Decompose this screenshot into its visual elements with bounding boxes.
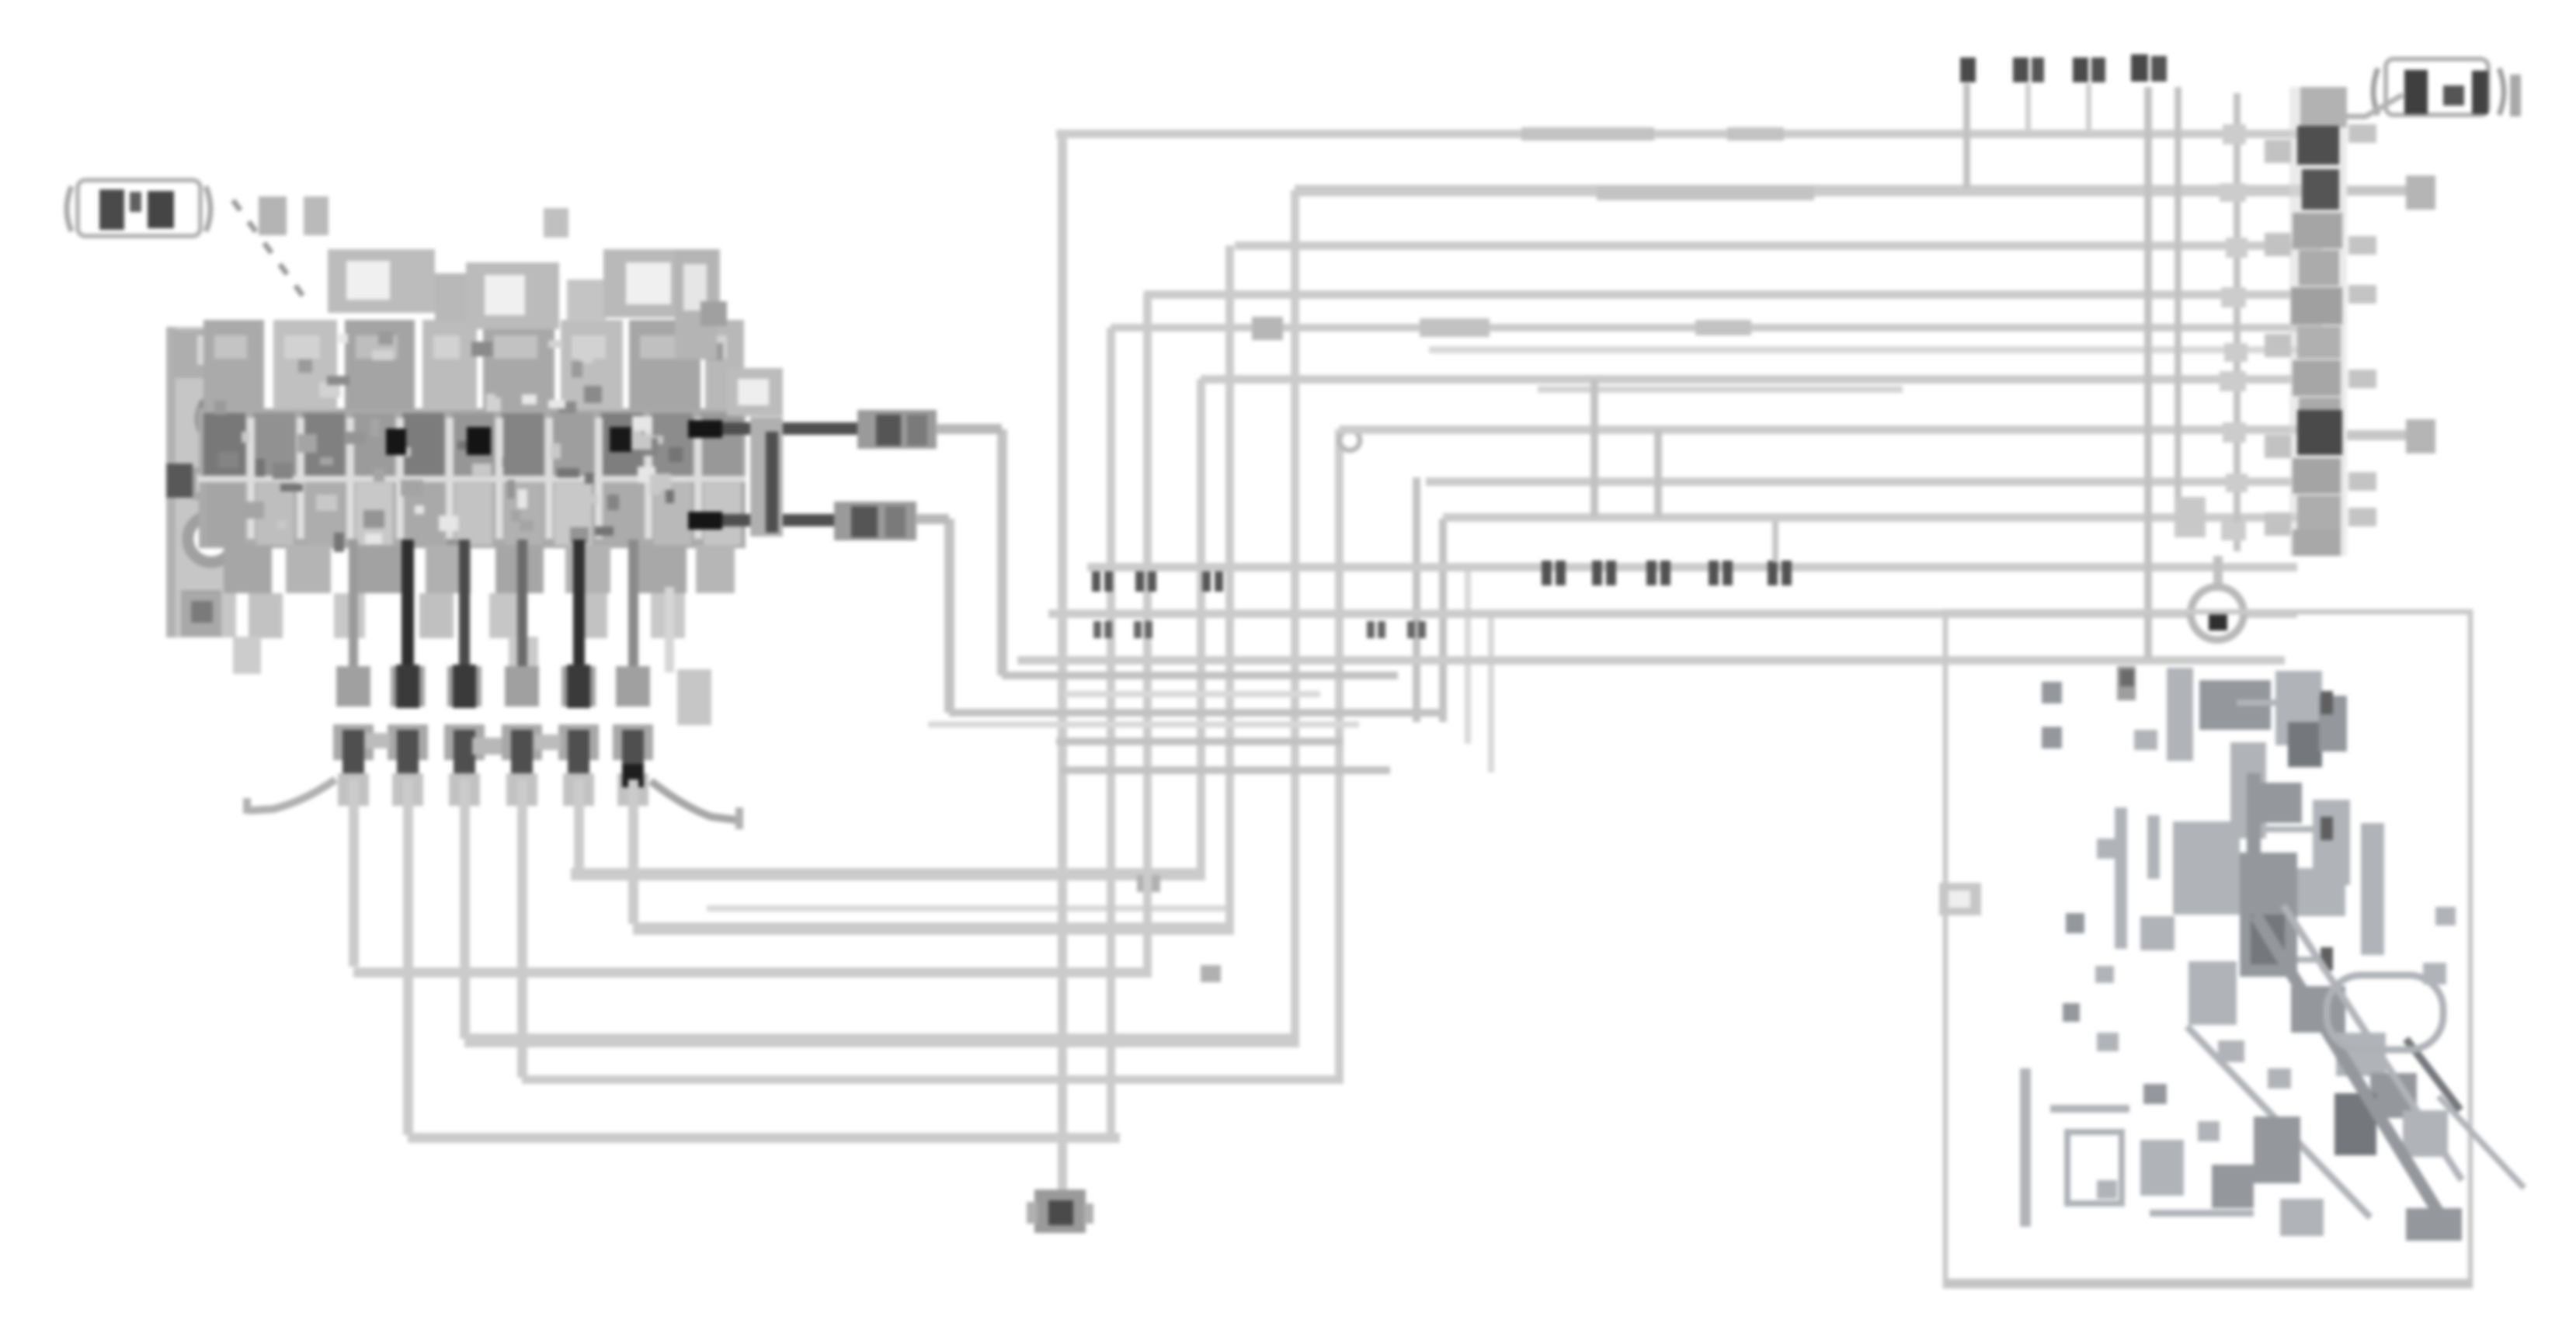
clamp 2 on L5 — [1252, 317, 1283, 340]
section vertical V4 — [2234, 93, 2241, 551]
bundle riser 4 — [1488, 613, 1494, 773]
hose 4 upper run — [517, 540, 527, 683]
line end nubs right of bank — [2348, 124, 2376, 143]
control valve: left end plate — [166, 327, 236, 637]
joint ball on L7 start — [1340, 430, 1360, 450]
hose 2 upper run — [402, 540, 414, 683]
valve body lower lugs — [224, 545, 272, 593]
label tail — [2510, 75, 2521, 116]
bank outlet stub upper — [2347, 186, 2407, 196]
hose 6 dark nut — [622, 764, 644, 787]
remote valve bank column — [2289, 87, 2347, 556]
bank fitting 7 — [2297, 326, 2341, 359]
bank fitting 13 — [2293, 530, 2341, 556]
riser A: return line from L1 down to drain fitting — [1058, 134, 1067, 1193]
hose A fitting — [857, 410, 937, 449]
pipe L9 (y666) — [1443, 513, 2319, 522]
label: right callout — [2373, 68, 2378, 115]
end plate lower boss — [181, 590, 221, 637]
number leader verticals — [1963, 84, 1970, 189]
inset counterweight blob — [2327, 975, 2443, 1050]
hose A stub to elbow — [936, 424, 1002, 434]
bank fitting 10 — [2297, 410, 2342, 455]
bundle riser 3 — [1465, 567, 1471, 744]
end plate dark boss — [166, 464, 193, 498]
inset port d — [2063, 1003, 2080, 1022]
inset upper cluster — [2167, 668, 2193, 761]
control valve: main body band — [199, 408, 746, 548]
pipe L2 (y245) — [1295, 185, 2322, 196]
bank side bumps — [2265, 140, 2291, 163]
pipe H1b: light parallel — [707, 905, 1233, 912]
bank fitting 4 — [2293, 213, 2342, 248]
control valve: upper sections — [203, 320, 264, 410]
inset left connector — [1939, 883, 1981, 915]
port boss upper — [200, 395, 247, 442]
hose adapters / fittings row — [336, 666, 370, 707]
step verticals near right — [1590, 379, 1598, 517]
inset boom diagonal — [2255, 915, 2451, 1233]
hose 1 upper run — [349, 540, 358, 683]
pipe L10 (y730) — [1087, 563, 2297, 571]
hose 3 upper run — [459, 540, 470, 683]
bank fitting 12 — [2297, 495, 2341, 530]
bank lower-left lug — [2174, 497, 2206, 537]
pipe L8 (y620) — [1426, 477, 2319, 486]
inset stub line 1 — [2237, 700, 2319, 706]
control valve: right end cap — [675, 249, 717, 359]
balloon numbers row mid-left — [1092, 571, 1100, 592]
pipe H2: hose6 elbow run right — [633, 922, 1234, 935]
pipe H6: hose2 elbow run right — [408, 1133, 1120, 1143]
whisker hose right — [651, 781, 736, 820]
port boss lower — [188, 516, 235, 562]
pipe joint on L2 — [1597, 186, 1814, 200]
section vertical V2 — [2174, 87, 2181, 517]
bank fitting 5 — [2299, 250, 2339, 286]
bundle line 6 — [1060, 766, 1390, 774]
label: left callout (valve bank P/N) — [67, 186, 71, 231]
tick below L9 — [1772, 522, 1778, 562]
riser G: H5 up to L7 — [1335, 429, 1344, 1079]
balloon below L12 — [2117, 666, 2136, 700]
drain to swivel circle — [2213, 556, 2223, 584]
machine overview inset frame — [1945, 612, 2470, 1286]
pipe L6 (y488) — [1201, 375, 2322, 384]
pipe L3 (y316) — [1235, 241, 2322, 250]
bank fitting 8 — [2293, 360, 2341, 396]
pipe L6b double — [1538, 386, 1903, 393]
pipe L5 (y422) — [1111, 324, 2322, 332]
pilot line from lower hose elbow — [944, 519, 954, 713]
bank fitting 1 — [2300, 87, 2347, 127]
tie rod nuts (black) — [386, 429, 406, 455]
pipe L4 (y379) — [1144, 290, 2322, 299]
inset mid cluster — [2173, 821, 2240, 915]
bundle line 5 — [1056, 738, 1344, 745]
leader: dashed line from left label to control valve — [233, 200, 309, 304]
drain elbow fitting at bottom — [1034, 1189, 1086, 1233]
long section vertical V1 — [2144, 87, 2152, 658]
clamp on L5 right — [1695, 320, 1751, 335]
riser E: H2 up to L3 — [1225, 245, 1234, 925]
bundle line 3 — [1064, 691, 1320, 697]
pipe L11 (y790) — [1048, 609, 2297, 618]
hose lower runs (light grey) down to elbows — [349, 780, 359, 967]
whisker hose left — [249, 780, 335, 811]
clamp on L5 — [1420, 318, 1490, 337]
inset mid verticals — [2115, 807, 2127, 949]
bank fitting 6 — [2291, 287, 2342, 325]
pipe joint on L1 b — [1727, 127, 1784, 141]
inset port c — [2066, 913, 2084, 933]
pipe L5b (y450) — [1429, 346, 2322, 353]
inset port b — [2042, 727, 2062, 748]
high pressure hose A (dark) — [690, 422, 862, 435]
hose B fitting — [834, 502, 916, 540]
hose 6 upper run — [628, 540, 638, 683]
riser F: H4 up to L2 — [1291, 190, 1299, 1040]
riser D: H1 up to L6 — [1197, 379, 1205, 871]
pipe joint on L1 a — [1521, 127, 1654, 141]
high pressure hose B (dark) — [690, 514, 836, 526]
inset stub line 3 — [2240, 957, 2319, 963]
bank outlet stub lower — [2347, 430, 2407, 440]
bank fitting 9 — [2299, 398, 2341, 429]
pipe L1 (y172) — [1056, 130, 2327, 138]
pipe H4: hose3 elbow run right (double) — [464, 1033, 1299, 1047]
pipe L7 (y553) — [1339, 425, 2322, 434]
bank fitting 2 — [2297, 126, 2339, 165]
riser B: H6 up to L5 — [1107, 328, 1115, 1137]
control valve: top caps — [259, 196, 287, 235]
inset lower-left details — [2020, 1068, 2031, 1227]
bundle riser 1 — [1413, 477, 1420, 722]
pipe L12 (y850) — [1017, 656, 2285, 665]
pipe H5: hose4 elbow run right — [522, 1075, 1344, 1084]
bank fitting 3 — [2302, 169, 2339, 210]
pipe H1: hose5 elbow run right — [571, 868, 1205, 880]
clamp marks on staircase — [1137, 875, 1160, 892]
inset port a — [2042, 682, 2062, 703]
inset stub line 2 — [2254, 826, 2319, 832]
bank fitting 11 — [2293, 458, 2341, 494]
inset scattered bits — [2097, 839, 2117, 859]
balloon numbers top right — [1960, 57, 1976, 82]
spare port stub right of hoses — [677, 669, 711, 725]
riser C: H3 up to L4 — [1143, 294, 1152, 972]
balloon numbers row mid-right (on L10) — [1542, 561, 1552, 585]
yoke bracket between hoses — [727, 368, 783, 416]
bundle line 4 — [928, 721, 1359, 728]
bundle riser 2 — [1439, 519, 1447, 722]
pipe H3: hose1 elbow run right — [353, 967, 1152, 978]
hose B stub to elbow — [916, 514, 949, 524]
hose 5 upper run — [573, 540, 585, 683]
pilot line from upper hose elbow — [997, 429, 1007, 675]
leader from right label to bank — [2320, 95, 2403, 116]
